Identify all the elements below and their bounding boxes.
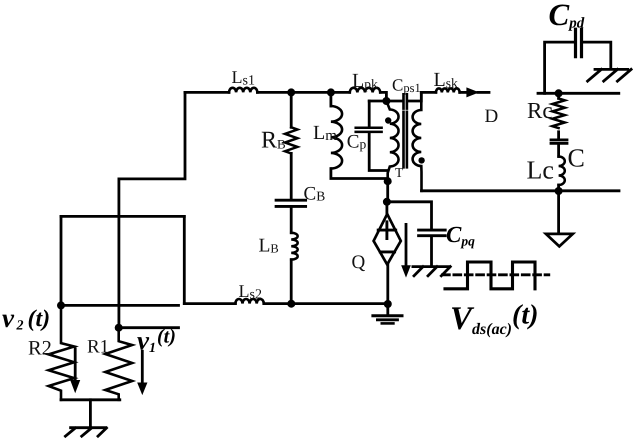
svg-text:Lpk: Lpk (352, 70, 378, 92)
wire C horizontal (61, 215, 184, 218)
svg-text:LB: LB (259, 236, 279, 257)
svg-text:Q: Q (352, 252, 366, 273)
wire to triangle ground (557, 191, 560, 234)
wire Q bottom (386, 264, 389, 305)
wire Lsk to arrow (460, 91, 467, 94)
chassis ground left (65, 428, 106, 437)
svg-text:R1: R1 (87, 337, 109, 358)
wire v1 vertical (118, 179, 121, 328)
wire secondary bottom to LC node (422, 189, 620, 192)
svg-text:CB: CB (304, 184, 326, 205)
svg-text:Rc: Rc (527, 98, 553, 123)
resistor R2 (49, 305, 75, 399)
capacitor Cp (356, 128, 382, 132)
svg-text:Lsk: Lsk (434, 69, 458, 91)
triangle ground (546, 234, 573, 247)
wire Cpd right leg (584, 42, 611, 68)
node dot Lm top (327, 88, 335, 96)
wire Cpq top (387, 202, 432, 229)
resistor RB (285, 127, 297, 153)
inductor LC (559, 157, 565, 186)
node dot v1 (115, 324, 123, 332)
wire v2 stub (61, 304, 179, 307)
capacitor CB (276, 200, 306, 206)
wire C to LC (557, 145, 560, 157)
svg-text:R2: R2 (28, 338, 52, 360)
phase dot primary (385, 117, 391, 123)
arrow Vds beside Q (405, 224, 408, 267)
wire v2 vertical (60, 216, 63, 305)
svg-text:T: T (395, 165, 404, 180)
wire Cp top (368, 101, 371, 127)
wire Cpd left leg (545, 42, 574, 93)
wire left vertical from top (119, 92, 185, 178)
node dot Q top (383, 198, 391, 206)
inductor LB (291, 233, 298, 260)
chassis ground Cpq (413, 267, 450, 276)
wire D stub (478, 91, 489, 94)
arrowhead D output (467, 88, 478, 97)
plus sign in Q (378, 222, 396, 239)
wire RB top (290, 92, 293, 127)
wire Lm top (329, 92, 332, 106)
wire Cp bottom (369, 133, 386, 170)
inductor Lsk (436, 88, 460, 92)
inductor Ls1 (229, 88, 257, 93)
phase dot secondary (418, 157, 424, 163)
svg-text:RB: RB (261, 127, 286, 153)
node dot primary bottom (384, 177, 392, 185)
dashed level line (443, 273, 549, 276)
wire Cpq bottom (430, 237, 433, 266)
wire RB to CB (290, 153, 293, 198)
svg-text:Vds(ac)(t): Vds(ac)(t) (450, 300, 538, 339)
inductor Lm (331, 106, 342, 169)
wire CB to LB (290, 208, 293, 233)
wire top main left (185, 91, 229, 94)
wire Q node to diamond (385, 202, 388, 215)
ground earth below Q (386, 304, 389, 316)
chassis ground Cpd (588, 69, 632, 81)
svg-text:C: C (568, 144, 585, 173)
wire Lm bottom (331, 169, 388, 179)
wire to Lsk (421, 91, 436, 94)
node dot LB bottom (287, 300, 295, 308)
svg-text:Lm: Lm (313, 122, 337, 144)
wire LB bottom (290, 260, 293, 304)
svg-text:Ls1: Ls1 (232, 67, 255, 89)
wire Ls2 left (184, 302, 235, 305)
capacitor Cps1 (404, 94, 407, 108)
node dot ground (384, 300, 392, 308)
svg-text:v2(t): v2(t) (2, 303, 50, 334)
svg-text:Cpq: Cpq (446, 222, 475, 249)
wire v1 stub (119, 326, 179, 329)
wire Ls2 to ground node (264, 302, 388, 305)
transformer T primary winding (386, 101, 398, 181)
svg-text:D: D (485, 106, 499, 127)
svg-text:Cp: Cp (347, 132, 367, 153)
svg-text:Cps1: Cps1 (392, 76, 421, 96)
wire RC top (557, 93, 560, 98)
wire Lpk to primary node (380, 92, 386, 101)
arrow v1 (141, 351, 144, 384)
wire to chassis ground left (89, 400, 92, 428)
node dot RC top (555, 89, 563, 97)
wire Cps1 to secondary top (408, 92, 421, 101)
resistor RC (552, 98, 564, 128)
square wave Vds (445, 262, 535, 289)
svg-text:Lc: Lc (527, 156, 554, 185)
capacitor Cpq (419, 230, 446, 236)
svg-text:Ls2: Ls2 (239, 281, 262, 303)
transformer T secondary winding (413, 92, 422, 190)
wire right top (538, 92, 619, 95)
wire LC bottom (557, 185, 560, 191)
inductor Ls2 (235, 299, 263, 304)
node dot LC bottom (555, 187, 563, 195)
transformer core (404, 112, 407, 168)
wire Q top (386, 181, 389, 202)
capacitor Cpd (576, 29, 582, 57)
node dot v2 (57, 301, 65, 309)
node dot primary top (382, 97, 390, 105)
wire node to Cps1 (369, 100, 402, 103)
svg-text:v1(t): v1(t) (137, 326, 176, 357)
wire right vertical to Ls2 (183, 216, 186, 303)
node dot RB top (287, 88, 295, 96)
svg-text:Cpd: Cpd (549, 0, 585, 32)
wire R bottoms (61, 398, 120, 401)
dependent source Q diamond (374, 214, 401, 265)
wire RC to C (557, 132, 560, 139)
wire top mid (257, 91, 349, 94)
resistor R1 (105, 328, 132, 400)
minus sign in Q (380, 250, 394, 253)
arrow v2 (74, 349, 77, 382)
inductor Lpk (350, 88, 381, 93)
capacitor C (551, 140, 567, 143)
